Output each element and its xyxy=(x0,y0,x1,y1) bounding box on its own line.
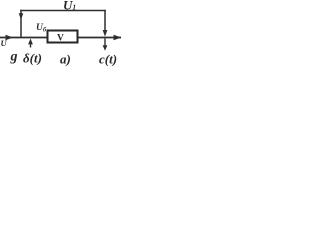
block V xyxy=(48,31,78,43)
wire: main line right segment xyxy=(78,37,121,39)
svg-text:V: V xyxy=(57,33,64,43)
arrowhead output right end xyxy=(114,35,122,40)
arrowhead up for delta(t) xyxy=(28,39,33,45)
wire: top bypass horizontal xyxy=(20,10,106,12)
background xyxy=(0,0,125,71)
svg-text:а): а) xyxy=(60,52,71,67)
arrowhead on input line xyxy=(6,35,14,40)
wire: right vertical of bypass xyxy=(104,10,106,31)
svg-text:c(t): c(t) xyxy=(99,52,117,67)
arrowhead down into main line at right junction xyxy=(103,30,108,37)
wire: left vertical of bypass xyxy=(20,10,22,38)
wire: output branch down to c(t) xyxy=(104,39,106,47)
svg-text:g: g xyxy=(10,50,18,65)
arrowhead down on left vertical xyxy=(19,13,24,20)
svg-text:U1: U1 xyxy=(63,0,76,13)
wire: delta(t) input vertical xyxy=(30,43,32,48)
arrowhead down toward c(t) xyxy=(103,45,108,51)
svg-text:δ(t): δ(t) xyxy=(23,50,42,65)
svg-text:U: U xyxy=(1,38,8,48)
wire: main line left segment xyxy=(0,37,47,39)
